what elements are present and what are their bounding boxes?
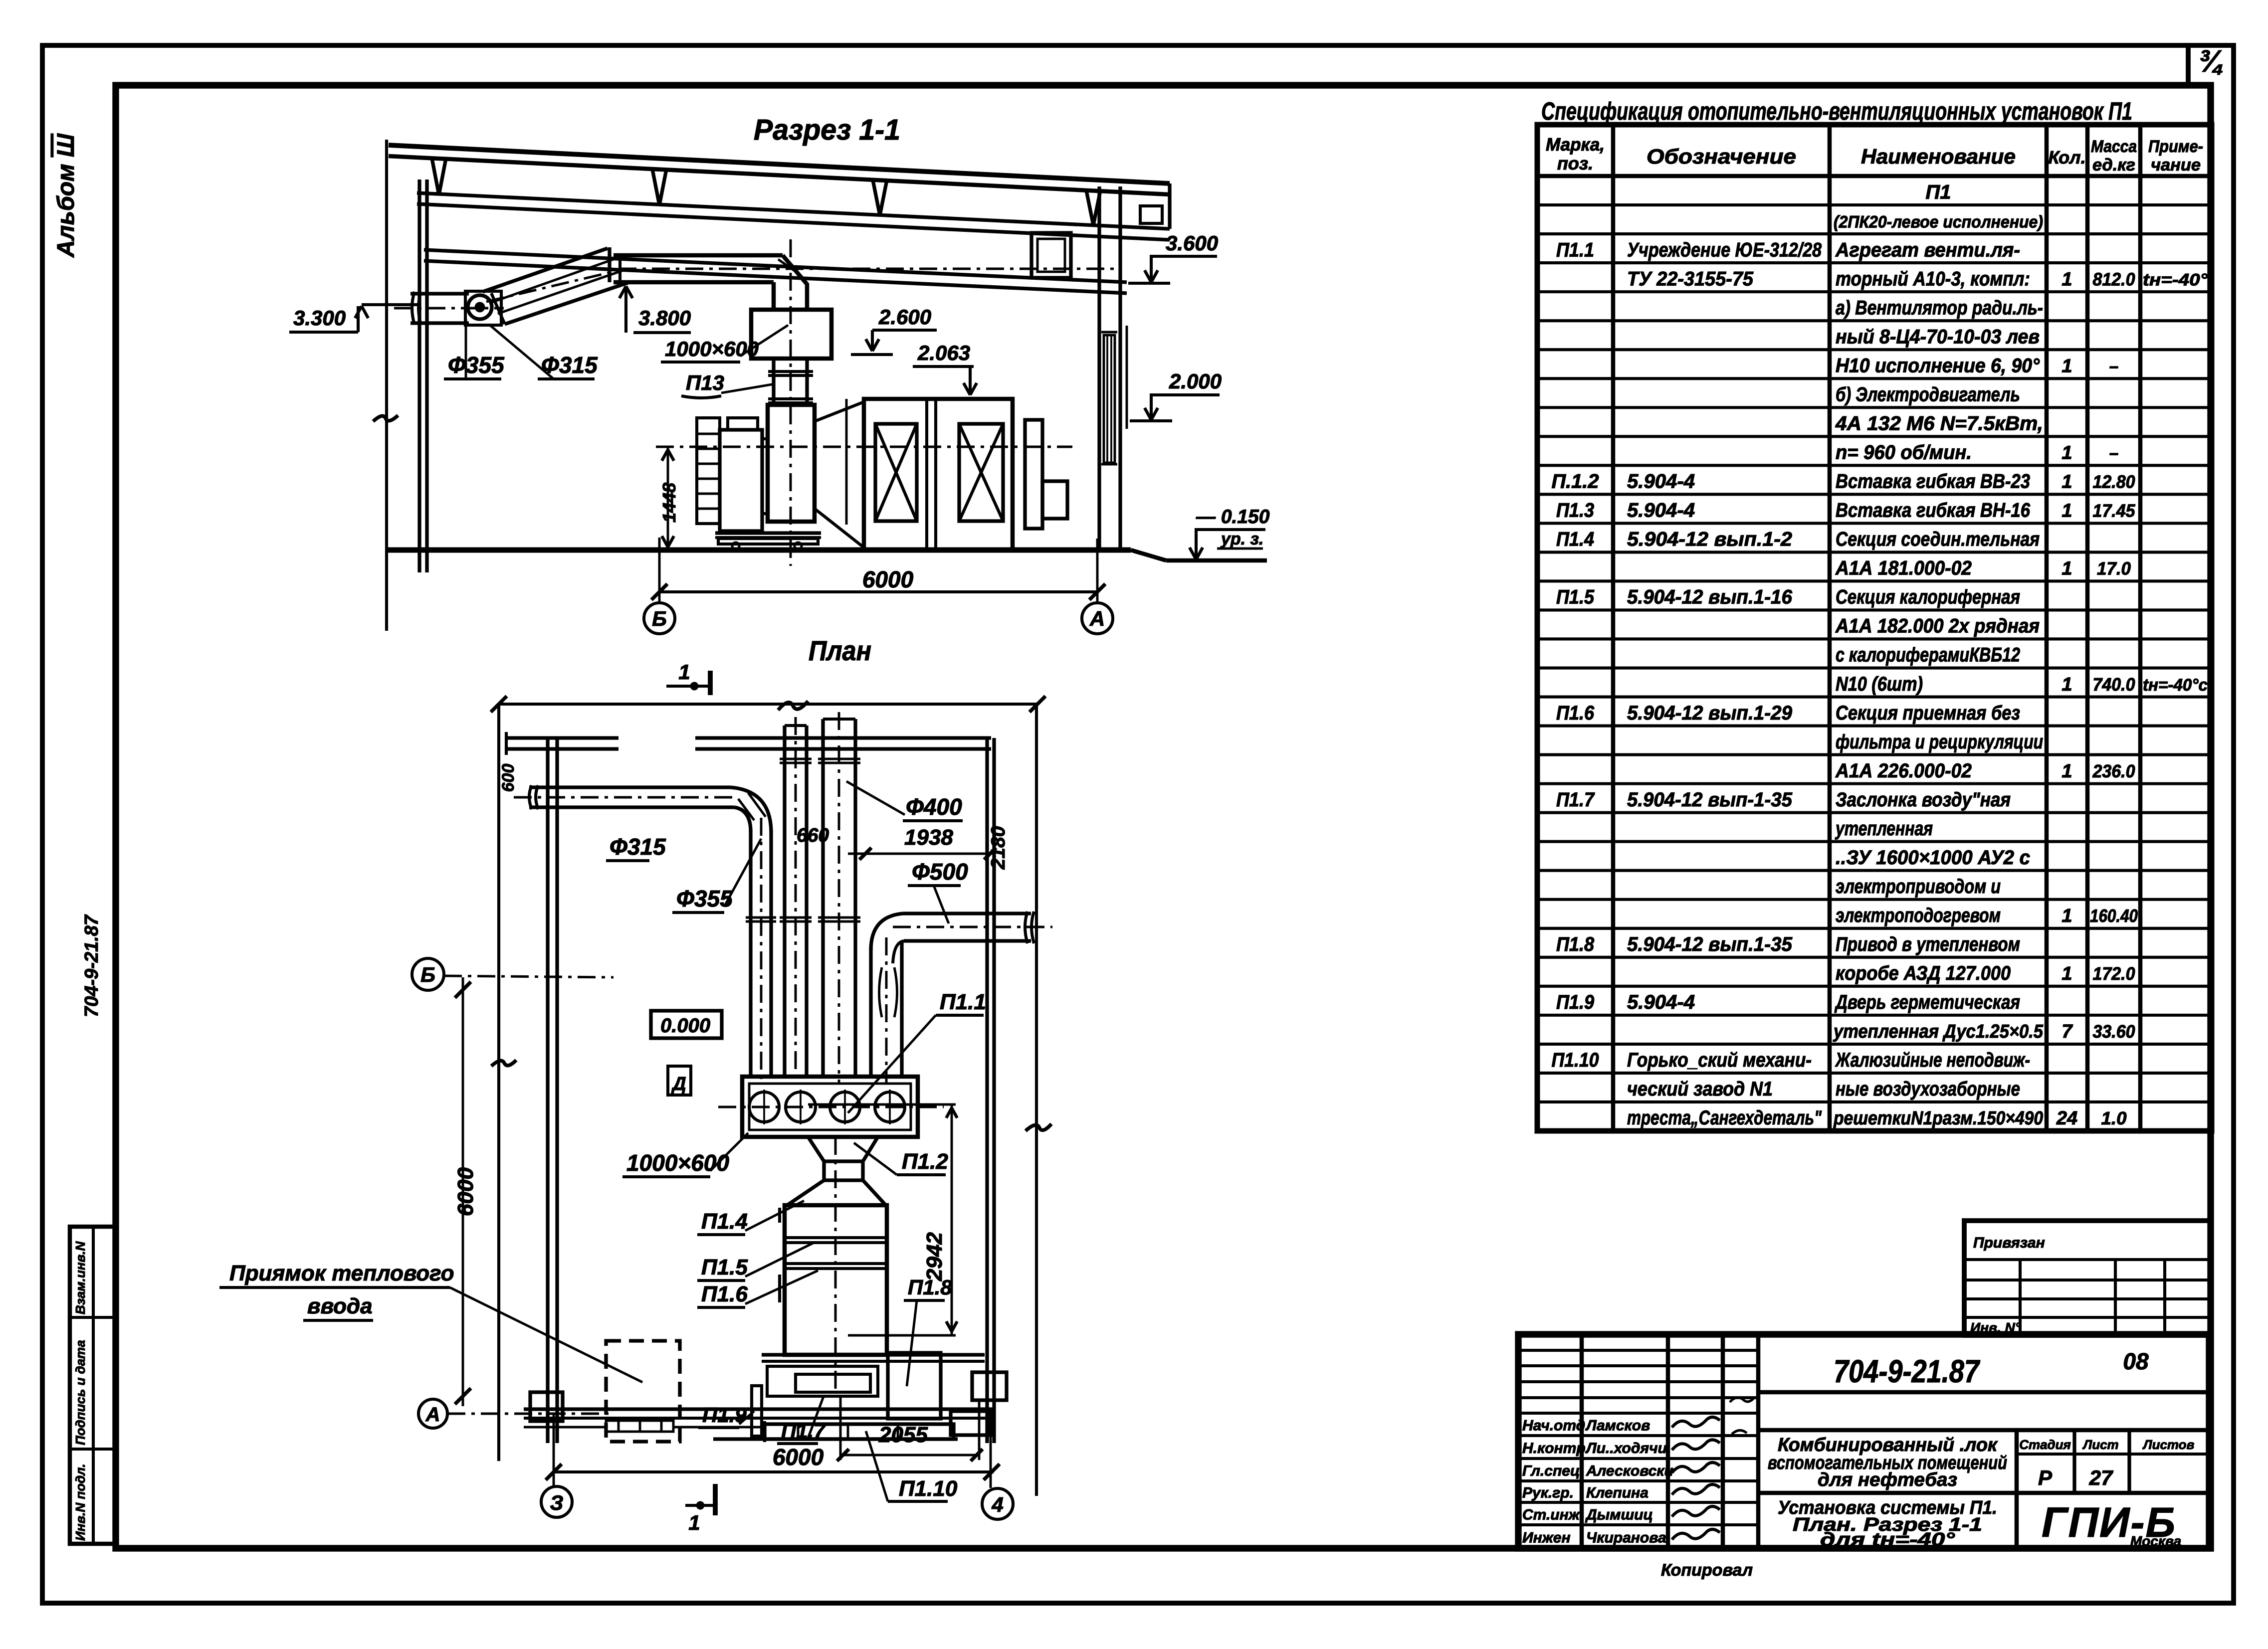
svg-text:П1.10: П1.10 — [1552, 1049, 1599, 1071]
svg-text:1938: 1938 — [904, 825, 953, 850]
svg-text:решеткиN1разм.150×490: решеткиN1разм.150×490 — [1833, 1108, 2043, 1129]
svg-text:Привод в утепленвом: Привод в утепленвом — [1836, 933, 2020, 955]
svg-text:Секция калориферная: Секция калориферная — [1836, 586, 2020, 608]
svg-text:П1.1: П1.1 — [940, 990, 986, 1014]
svg-text:Секция соедин.тельная: Секция соедин.тельная — [1836, 529, 2040, 550]
svg-text:ный 8-Ц4-70-10-03 лев: ный 8-Ц4-70-10-03 лев — [1836, 326, 2040, 348]
svg-text:1: 1 — [2062, 963, 2072, 984]
svg-text:П1.6: П1.6 — [1556, 702, 1595, 724]
svg-text:Секция приемная без: Секция приемная без — [1836, 702, 2020, 724]
svg-text:5.904-12 вып.1-35: 5.904-12 вып.1-35 — [1627, 933, 1793, 955]
svg-text:Алесковски: Алесковски — [1586, 1463, 1673, 1479]
svg-text:tн=-40°с: tн=-40°с — [2143, 676, 2208, 695]
svg-text:17.0: 17.0 — [2097, 558, 2131, 579]
svg-text:П1.5: П1.5 — [701, 1255, 748, 1280]
svg-text:6000: 6000 — [453, 1167, 478, 1216]
svg-text:чание: чание — [2151, 156, 2201, 175]
svg-text:704-9-21.87: 704-9-21.87 — [81, 914, 102, 1017]
svg-text:П1.5: П1.5 — [1556, 586, 1595, 608]
svg-text:12.80: 12.80 — [2093, 472, 2135, 492]
svg-text:3.800: 3.800 — [638, 306, 691, 330]
svg-text:236.0: 236.0 — [2092, 761, 2135, 781]
svg-text:Рук.гр.: Рук.гр. — [1522, 1485, 1574, 1501]
svg-text:утепленная: утепленная — [1835, 818, 1933, 840]
svg-text:поз.: поз. — [1557, 153, 1593, 174]
svg-text:812.0: 812.0 — [2093, 269, 2135, 289]
svg-text:ные воздухозаборные: ные воздухозаборные — [1836, 1078, 2020, 1100]
svg-text:А1А 182.000 2х рядная: А1А 182.000 2х рядная — [1835, 615, 2040, 637]
svg-text:—: — — [2109, 356, 2118, 376]
svg-text:1: 1 — [2062, 558, 2072, 579]
svg-text:б) Электродвигатель: б) Электродвигатель — [1836, 383, 2020, 405]
svg-text:Ф315: Ф315 — [610, 834, 666, 860]
svg-text:2055: 2055 — [878, 1423, 928, 1447]
svg-text:1: 1 — [2062, 356, 2072, 376]
svg-text:Гл.спец: Гл.спец — [1522, 1463, 1580, 1479]
svg-text:1: 1 — [688, 1511, 700, 1534]
svg-text:Ст.инж: Ст.инж — [1522, 1507, 1581, 1523]
svg-text:треста„Сангехдеталь": треста„Сангехдеталь" — [1627, 1107, 1822, 1129]
svg-text:—: — — [2109, 443, 2118, 463]
svg-text:(2ПК20-левое исполнение): (2ПК20-левое исполнение) — [1834, 212, 2043, 231]
svg-text:Копировал: Копировал — [1661, 1561, 1753, 1580]
svg-text:1: 1 — [2062, 472, 2072, 493]
svg-text:1: 1 — [2062, 674, 2072, 695]
svg-text:Н10 исполнение 6, 90°: Н10 исполнение 6, 90° — [1836, 355, 2040, 376]
svg-text:1000×600: 1000×600 — [626, 1150, 729, 1176]
svg-text:740.0: 740.0 — [2093, 674, 2135, 695]
svg-text:5.904-4: 5.904-4 — [1627, 471, 1695, 493]
svg-text:П.1.2: П.1.2 — [1552, 471, 1599, 493]
svg-text:24: 24 — [2056, 1108, 2077, 1129]
svg-text:коробе АЗД 127.000: коробе АЗД 127.000 — [1836, 962, 2011, 984]
svg-text:Ф355: Ф355 — [448, 352, 505, 378]
svg-text:А1А 181.000-02: А1А 181.000-02 — [1835, 557, 1972, 579]
svg-text:1000×600: 1000×600 — [665, 337, 759, 361]
svg-text:Спецификация отопительно-венти: Спецификация отопительно-вентиляционных … — [1541, 97, 2132, 125]
svg-text:7: 7 — [2062, 1021, 2073, 1042]
svg-text:1.0: 1.0 — [2101, 1108, 2127, 1128]
svg-text:Ли..ходячи: Ли..ходячи — [1585, 1440, 1667, 1457]
svg-text:Ф500: Ф500 — [912, 859, 968, 885]
svg-text:5.904-4: 5.904-4 — [1627, 991, 1695, 1013]
svg-text:П1.3: П1.3 — [1556, 500, 1594, 522]
svg-text:Приме-: Приме- — [2148, 137, 2203, 156]
svg-text:Чкиранова: Чкиранова — [1586, 1530, 1666, 1546]
svg-text:Ф355: Ф355 — [676, 886, 733, 912]
svg-text:Заслонка возду"ная: Заслонка возду"ная — [1836, 789, 2011, 811]
svg-text:Д: Д — [671, 1074, 686, 1095]
svg-text:Горько_ский механи-: Горько_ский механи- — [1627, 1049, 1812, 1071]
svg-text:Приямок теплового: Приямок теплового — [229, 1261, 454, 1285]
svg-text:А1А 226.000-02: А1А 226.000-02 — [1835, 760, 1972, 782]
svg-text:Масса: Масса — [2091, 137, 2137, 156]
svg-text:Вставка гибкая ВВ-23: Вставка гибкая ВВ-23 — [1836, 471, 2030, 493]
svg-text:1: 1 — [2062, 761, 2072, 782]
svg-text:172.0: 172.0 — [2093, 963, 2135, 984]
svg-text:П1.9: П1.9 — [1556, 991, 1595, 1013]
svg-text:П1.4: П1.4 — [1556, 529, 1594, 550]
svg-text:3.300: 3.300 — [293, 306, 346, 330]
svg-text:1: 1 — [2062, 906, 2072, 926]
svg-text:ческий завод N1: ческий завод N1 — [1627, 1078, 1773, 1100]
svg-text:Р: Р — [2038, 1466, 2053, 1489]
svg-text:Стадия: Стадия — [2019, 1437, 2071, 1452]
svg-text:5.904-12 вып.1-2: 5.904-12 вып.1-2 — [1627, 529, 1792, 550]
svg-text:Подпись и дата: Подпись и дата — [73, 1340, 88, 1445]
svg-text:П1.6: П1.6 — [701, 1282, 748, 1306]
svg-text:6000: 6000 — [862, 566, 914, 592]
svg-text:Н.контр: Н.контр — [1522, 1440, 1586, 1457]
svg-text:Б: Б — [652, 607, 667, 630]
svg-text:— 0.150: — 0.150 — [1196, 506, 1270, 528]
svg-text:33.60: 33.60 — [2093, 1021, 2135, 1042]
svg-text:ур. з.: ур. з. — [1220, 530, 1263, 549]
svg-text:3.600: 3.600 — [1166, 231, 1218, 255]
svg-text:N10 (6шт): N10 (6шт) — [1836, 673, 1923, 695]
svg-text:Марка,: Марка, — [1546, 134, 1605, 155]
svg-text:а) Вентилятор ради.ль-: а) Вентилятор ради.ль- — [1836, 297, 2043, 319]
svg-text:Вставка гибкая ВН-16: Вставка гибкая ВН-16 — [1836, 500, 2031, 522]
svg-text:Обозначение: Обозначение — [1647, 145, 1796, 168]
svg-text:План: План — [809, 635, 871, 666]
svg-text:0.000: 0.000 — [660, 1015, 710, 1037]
svg-text:П1.7: П1.7 — [1556, 789, 1595, 811]
svg-text:П1.2: П1.2 — [902, 1149, 948, 1174]
svg-text:27: 27 — [2089, 1466, 2113, 1489]
svg-text:Б: Б — [420, 963, 435, 986]
svg-text:Агрегат венти.ля-: Агрегат венти.ля- — [1835, 239, 2020, 261]
svg-text:2.600: 2.600 — [878, 305, 931, 329]
svg-text:1448: 1448 — [659, 483, 679, 523]
svg-text:5.904-12 вып.1-16: 5.904-12 вып.1-16 — [1627, 586, 1793, 608]
svg-text:Нач.отд: Нач.отд — [1522, 1418, 1585, 1434]
svg-text:Инв.N подл.: Инв.N подл. — [73, 1464, 88, 1541]
svg-text:Дымшиц: Дымшиц — [1585, 1507, 1653, 1523]
svg-text:¾: ¾ — [2199, 44, 2225, 79]
svg-text:П13: П13 — [686, 371, 724, 394]
svg-text:Москва: Москва — [2130, 1533, 2181, 1549]
svg-text:2.063: 2.063 — [917, 341, 970, 365]
svg-text:Привязан: Привязан — [1973, 1235, 2045, 1251]
svg-text:660: 660 — [797, 825, 829, 846]
svg-text:А: А — [425, 1404, 440, 1426]
svg-text:А: А — [1089, 607, 1105, 630]
svg-text:Взам.инв.N: Взам.инв.N — [73, 1241, 88, 1314]
svg-text:08: 08 — [2123, 1348, 2149, 1374]
svg-text:для tн=-40°: для tн=-40° — [1820, 1529, 1955, 1550]
svg-text:электроподогревом: электроподогревом — [1836, 905, 2001, 926]
svg-text:Инжен: Инжен — [1522, 1530, 1571, 1546]
svg-text:17.45: 17.45 — [2093, 501, 2136, 521]
svg-text:2942: 2942 — [922, 1232, 947, 1282]
svg-text:Листов: Листов — [2142, 1437, 2195, 1452]
svg-text:704-9-21.87: 704-9-21.87 — [1834, 1353, 1981, 1389]
svg-text:П1.8: П1.8 — [908, 1276, 952, 1299]
svg-text:2180: 2180 — [988, 826, 1009, 870]
svg-text:4А 132 М6 N=7.5кВт,: 4А 132 М6 N=7.5кВт, — [1835, 413, 2043, 435]
svg-text:1: 1 — [678, 660, 690, 684]
svg-text:П1.4: П1.4 — [701, 1209, 748, 1234]
svg-text:П1.1: П1.1 — [1556, 239, 1594, 261]
svg-text:З: З — [550, 1491, 564, 1514]
svg-text:ввода: ввода — [307, 1294, 373, 1318]
svg-text:Альбом Ш: Альбом Ш — [53, 133, 79, 258]
svg-text:ТУ 22-3155-75: ТУ 22-3155-75 — [1627, 268, 1754, 290]
svg-text:электроприводом и: электроприводом и — [1836, 876, 2001, 898]
svg-text:П1.10: П1.10 — [899, 1476, 958, 1501]
svg-text:n= 960 об/мин.: n= 960 об/мин. — [1836, 442, 1972, 464]
svg-text:Жалюзийные неподвиж-: Жалюзийные неподвиж- — [1835, 1049, 2030, 1071]
svg-text:1: 1 — [2062, 501, 2072, 522]
svg-text:П1.8: П1.8 — [1556, 933, 1595, 955]
svg-text:ед.кг: ед.кг — [2092, 156, 2135, 175]
svg-text:..ЗУ 1600×1000 АУ2 с: ..ЗУ 1600×1000 АУ2 с — [1836, 847, 2030, 869]
svg-text:П1: П1 — [1925, 181, 1951, 203]
svg-text:5.904-4: 5.904-4 — [1627, 500, 1695, 522]
svg-text:для нефтебаз: для нефтебаз — [1818, 1469, 1957, 1490]
svg-text:Разрез 1-1: Разрез 1-1 — [754, 114, 900, 146]
svg-text:утепленная Дус1.25×0.5: утепленная Дус1.25×0.5 — [1833, 1021, 2044, 1042]
svg-text:1: 1 — [2062, 443, 2072, 464]
svg-text:торный А10-3, компл:: торный А10-3, компл: — [1836, 268, 2030, 290]
svg-text:2.000: 2.000 — [1169, 369, 1222, 393]
svg-text:5.904-12 вып-1-35: 5.904-12 вып-1-35 — [1627, 789, 1793, 811]
svg-text:tн=-40°: tн=-40° — [2143, 270, 2208, 289]
svg-text:Ф400: Ф400 — [906, 794, 962, 820]
svg-text:4: 4 — [991, 1493, 1003, 1516]
svg-text:с калориферамиКВБ12: с калориферамиКВБ12 — [1836, 644, 2020, 666]
svg-text:Клепина: Клепина — [1586, 1485, 1649, 1501]
svg-text:600: 600 — [499, 764, 518, 792]
svg-text:160.40: 160.40 — [2090, 906, 2138, 926]
svg-text:Ламсков: Ламсков — [1585, 1418, 1650, 1434]
svg-text:Учреждение ЮЕ-312/28: Учреждение ЮЕ-312/28 — [1627, 239, 1822, 261]
svg-text:Лист: Лист — [2082, 1437, 2118, 1452]
svg-text:Наименование: Наименование — [1861, 145, 2016, 168]
svg-text:фильтра и рециркуляции: фильтра и рециркуляции — [1836, 731, 2043, 753]
svg-text:Кол.: Кол. — [2048, 147, 2085, 168]
svg-text:5.904-12 вып.1-29: 5.904-12 вып.1-29 — [1627, 702, 1793, 724]
svg-text:6000: 6000 — [773, 1444, 824, 1470]
svg-text:Дверь герметическая: Дверь герметическая — [1835, 991, 2020, 1013]
svg-text:1: 1 — [2062, 269, 2072, 290]
